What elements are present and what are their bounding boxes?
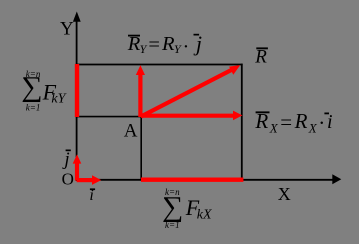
- vector R_Y (vertical red arrow): [136, 65, 145, 117]
- equation R_X = R_X . i (right): [254, 109, 332, 135]
- svg-text:k=1: k=1: [26, 103, 41, 113]
- sum F_kY (left): [21, 69, 67, 113]
- svg-text:Y: Y: [60, 19, 74, 40]
- label R-bar (resultant): [254, 46, 268, 67]
- mid vertical line (below A): [140, 117, 142, 180]
- svg-text:X: X: [308, 120, 318, 135]
- rectangle right edge: [241, 64, 243, 180]
- label j-bar (unit vector j): [61, 149, 70, 170]
- X axis: [76, 179, 334, 181]
- svg-text:kX: kX: [197, 208, 212, 223]
- sum F_kX (bottom): [162, 187, 212, 230]
- label i-bar (unit vector i): [89, 187, 95, 204]
- svg-text:A: A: [124, 121, 138, 142]
- svg-text:O: O: [62, 169, 74, 188]
- svg-text:·: ·: [183, 36, 190, 58]
- unit vector j (red up arrow at origin): [73, 154, 82, 180]
- svg-text:X: X: [269, 120, 279, 135]
- svg-text:X: X: [278, 184, 291, 204]
- Y axis arrowhead: [73, 12, 81, 22]
- svg-text:k=1: k=1: [165, 220, 180, 230]
- svg-text:kY: kY: [51, 92, 67, 107]
- svg-text:R: R: [254, 46, 267, 67]
- svg-text:k=n: k=n: [165, 187, 180, 197]
- red sum bar left (sum F_kY): [75, 64, 79, 117]
- svg-text:·: ·: [318, 111, 325, 135]
- svg-text:R: R: [294, 109, 308, 133]
- red sum bar bottom (sum F_kX): [141, 177, 243, 181]
- Y axis: [76, 20, 78, 181]
- svg-text:R: R: [161, 33, 175, 55]
- mid horizontal line (through A): [76, 116, 141, 118]
- equation R_Y = R_Y . j (top): [127, 31, 202, 58]
- vector R_X (horizontal red arrow): [141, 111, 242, 121]
- svg-text:=: =: [148, 34, 160, 56]
- svg-text:k=n: k=n: [26, 69, 41, 79]
- vector R (diagonal red arrow): [141, 65, 240, 116]
- unit vector i (red right arrow at origin): [77, 175, 102, 185]
- rectangle top edge: [76, 64, 243, 66]
- svg-text:=: =: [280, 110, 292, 134]
- X axis arrowhead: [332, 174, 341, 184]
